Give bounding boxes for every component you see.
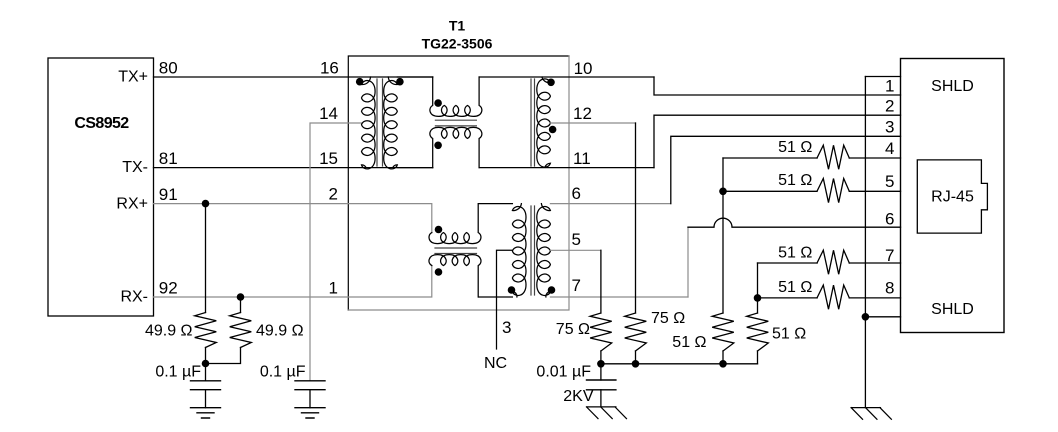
wire pin 6 net (gray) to jog [550,203,670,205]
connector J1 RJ-45 inner jack outline [917,160,987,233]
svg-text:T1: T1 [449,18,466,34]
svg-text:81: 81 [159,149,178,168]
svg-text:1: 1 [329,278,338,297]
wire pin 6 jog up to RJ45 pin 3 [671,136,901,203]
connector J1 RJ-45 outer box [901,59,1005,333]
svg-text:RJ-45: RJ-45 [931,189,974,206]
node dot SHLD ground [862,313,870,321]
common-mode choke 2 bottom winding [429,255,481,297]
polarity dot pin 10 side [547,79,555,87]
svg-text:75 Ω: 75 Ω [556,321,590,338]
capacitor C2 0.1 uF [295,381,325,390]
svg-text:91: 91 [159,185,178,204]
svg-text:2KV: 2KV [563,388,594,405]
svg-text:5: 5 [885,172,894,191]
svg-text:51 Ω: 51 Ω [778,245,812,262]
svg-text:5: 5 [572,230,581,249]
connector J1 pin cell dividers [865,77,900,317]
svg-text:2: 2 [885,97,894,116]
polarity dot choke2 bottom [435,268,443,276]
polarity dot pin 12 tap [549,126,557,134]
resistor R6 51 ohm zigzag [747,313,769,351]
wire common node line [601,363,758,365]
svg-text:0.01 µF: 0.01 µF [536,364,591,381]
svg-text:51 Ω: 51 Ω [772,326,806,343]
svg-text:92: 92 [159,279,178,298]
polarity dot RX transformer left [508,286,516,294]
polarity dot choke top [434,99,442,107]
T1 core bottom-right transformer [531,206,535,295]
wire R6 bottom to node [757,351,759,364]
svg-text:RX+: RX+ [116,196,148,213]
svg-text:CS8952: CS8952 [74,115,129,132]
svg-text:10: 10 [574,59,593,78]
node dot R5 [719,360,727,368]
svg-text:6: 6 [885,210,894,229]
common-mode choke core [435,120,476,126]
wire T1 pin 14 net (gray) to capacitor C2 [310,123,362,381]
wire choke2 to RX transformer bottom [479,296,513,298]
resistor R4 75 ohm zigzag [625,313,647,351]
svg-text:12: 12 [573,104,592,123]
svg-text:7: 7 [572,276,581,295]
svg-text:2: 2 [329,185,338,204]
resistor R2 49.9 ohm zigzag [230,313,252,348]
svg-text:SHLD: SHLD [931,78,974,95]
wire C2 to ground [309,390,311,408]
svg-text:TX+: TX+ [118,69,148,86]
svg-text:14: 14 [319,104,338,123]
common-mode choke 2 core [435,248,477,254]
wire RJ45 pin5 row with resistor R8 [723,190,817,192]
wire R1 bottom to node [205,348,207,364]
wire RJ45 pin4 row with resistor R7 [723,157,817,159]
connector J1 pin column line [864,77,866,317]
polarity dot top-left secondary [396,78,404,86]
polarity dot choke2 top [435,226,443,234]
svg-text:16: 16 [320,58,339,77]
resistor R1 49.9 ohm zigzag [195,313,217,348]
common-mode choke 2 top winding [429,204,481,244]
wire RJ45 pin 4 branch vertical [722,158,724,313]
wire R2 bottom to node [206,348,241,364]
polarity dot RX transformer right [548,286,556,294]
resistor R5 51 ohm zigzag [712,313,734,351]
RX transformer left winding [512,204,526,297]
node dot R3 [597,360,605,368]
wire RX+ net: CS8952 pin 91 to T1 pin 2 [154,204,432,233]
svg-text:80: 80 [159,59,178,78]
ground GND2 [295,408,325,418]
node RX- junction [237,293,245,301]
wire TX- net: CS8952 pin 81 to T1 pin 15 [154,167,433,169]
wire R3 bottom to node [600,351,602,364]
wire left transformer secondary to choke (bottom) [397,167,432,169]
svg-text:51 Ω: 51 Ω [778,279,812,296]
wire pin 10 jog to RJ45 pin 1 [654,77,901,95]
RX transformer right winding (pins 6-5-7) [537,204,551,297]
resistor R8 51 ohm zigzag [817,179,849,203]
wire C3 to chassis ground [600,390,602,407]
svg-text:SHLD: SHLD [931,301,974,318]
common-mode choke bottom winding [430,127,482,167]
wire pin 3 center tap to NC [497,250,513,349]
svg-text:7: 7 [885,246,894,265]
wire left transformer secondary to choke (top) [397,76,432,78]
wire R7 to RJ45 pin 4 [849,157,900,159]
node RX+ junction [202,200,210,208]
resistor R3 75 ohm zigzag [590,313,612,351]
svg-text:3: 3 [502,318,511,337]
wire C1 to ground [205,390,207,408]
wire RJ45 pin8 row with resistor R10 [758,297,818,299]
resistor R7 51 ohm zigzag [817,145,849,169]
node dot pin5 branch [719,188,727,196]
svg-text:8: 8 [885,279,894,298]
chassis ground GND4 [851,408,891,420]
svg-text:11: 11 [573,149,591,168]
wire to RJ45 pin 6 with hop over pin4 branch [688,218,901,227]
chassis ground GND3 [587,407,627,419]
svg-text:TX-: TX- [122,159,148,176]
svg-text:6: 6 [572,184,581,203]
ground GND1 [191,408,221,418]
wire R5 bottom to node [722,351,724,364]
node resistor common [202,360,210,368]
wire RX- junction down to resistor R2 [240,297,242,313]
svg-text:15: 15 [319,149,338,168]
svg-text:4: 4 [885,139,894,158]
wire pin 5 center tap (gray) [550,249,601,251]
IC U1 CS8952 box [48,58,154,316]
wire R10 to RJ45 pin 8 [849,297,900,299]
polarity dot top-left winding [356,78,364,86]
wire pin 5 net down to resistor R3 [600,250,602,313]
wire SHLD to chassis ground [864,317,866,408]
polarity dot choke bottom [434,142,442,150]
wire choke to output transformer bottom rail / pin 11 [479,167,654,169]
wire pin 12 center tap (gray) [550,122,635,124]
svg-text:RX-: RX- [120,289,148,306]
transformer T1 box [348,56,569,310]
wire pin 7 net (gray) to jog [550,296,688,298]
svg-text:3: 3 [885,118,894,137]
node dot R4 [632,360,640,368]
wire TX+ net: CS8952 pin 80 to T1 pin 16 [154,76,433,78]
wire pin 12 net down to resistor R4 [635,123,637,313]
svg-text:0.1 µF: 0.1 µF [260,364,306,381]
wire R4 bottom to node [635,351,637,364]
wire R8 to RJ45 pin 5 [849,190,900,192]
svg-text:51 Ω: 51 Ω [778,172,812,189]
svg-text:75 Ω: 75 Ω [651,310,685,327]
wire RX- net: CS8952 pin 92 to T1 pin 1 [154,266,432,297]
wire RJ45 pin7 row with resistor R9 [758,262,818,264]
wire pin 11 jog to RJ45 pin 2 [654,115,901,167]
resistor R9 51 ohm zigzag [817,250,849,274]
svg-text:NC: NC [484,355,507,372]
resistor R10 51 ohm zigzag [817,285,849,309]
wire choke to output transformer top rail [479,76,654,78]
T1 core top-right transformer [531,79,535,166]
svg-text:TG22-3506: TG22-3506 [422,36,493,52]
svg-text:51 Ω: 51 Ω [778,139,812,156]
svg-text:49.9 Ω: 49.9 Ω [145,323,193,340]
wire node to capacitor C1 [205,364,207,381]
wire RJ45 pin 7 branch vertical [757,263,759,313]
svg-text:51 Ω: 51 Ω [672,334,706,351]
node dot pin8 branch [754,294,762,302]
T1 output winding (pins 10-12-11) [537,77,551,167]
svg-text:49.9 Ω: 49.9 Ω [256,323,304,340]
capacitor C3 0.01 uF 2KV [587,380,616,390]
capacitor C1 0.1 uF [191,381,221,390]
T1 core top-left transformer [377,79,383,166]
T1 primary winding left coil (pins 16-14-15) [362,77,376,169]
svg-text:0.1 µF: 0.1 µF [155,364,201,381]
wire node to capacitor C3 [600,364,602,380]
svg-text:1: 1 [885,77,894,96]
wire R9 to RJ45 pin 7 [849,262,900,264]
wire pin 7 jog up (gray) [687,227,689,297]
wire RX+ junction down to resistor R1 [205,204,207,313]
T1 secondary winding right coil of left transformer [384,77,398,169]
wire choke2 to RX transformer top [479,203,513,205]
common-mode choke top winding [430,77,482,116]
